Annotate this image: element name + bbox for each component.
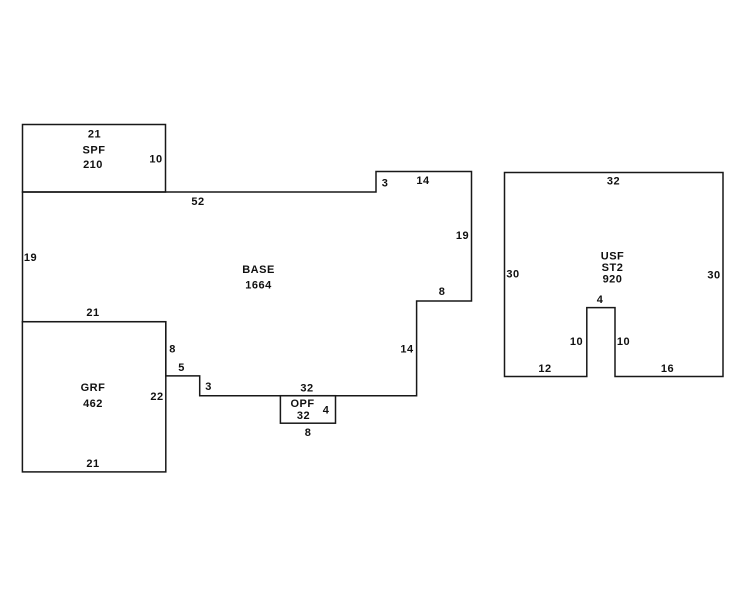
svg-text:14: 14 xyxy=(400,344,414,356)
svg-text:ST2: ST2 xyxy=(602,262,624,274)
svg-text:32: 32 xyxy=(300,383,313,395)
svg-text:32: 32 xyxy=(297,410,310,422)
svg-text:GRF: GRF xyxy=(81,382,106,394)
svg-text:SPF: SPF xyxy=(83,145,106,157)
svg-text:8: 8 xyxy=(439,286,446,298)
svg-text:21: 21 xyxy=(86,307,99,319)
svg-text:210: 210 xyxy=(83,159,103,171)
svg-text:4: 4 xyxy=(323,405,330,417)
area OPF outline xyxy=(280,396,335,424)
svg-text:BASE: BASE xyxy=(242,264,275,276)
svg-text:USF: USF xyxy=(601,251,625,263)
svg-text:8: 8 xyxy=(305,427,312,439)
svg-text:8: 8 xyxy=(169,344,176,356)
svg-text:16: 16 xyxy=(661,363,674,375)
svg-text:10: 10 xyxy=(570,336,583,348)
svg-text:4: 4 xyxy=(597,294,604,306)
svg-text:21: 21 xyxy=(86,458,99,470)
svg-text:3: 3 xyxy=(382,178,389,190)
area SPF outline xyxy=(23,125,166,193)
svg-text:462: 462 xyxy=(83,398,103,410)
svg-text:1664: 1664 xyxy=(245,280,272,292)
svg-text:30: 30 xyxy=(707,270,720,282)
svg-text:14: 14 xyxy=(416,175,430,187)
area BASE outline xyxy=(23,172,472,396)
svg-text:21: 21 xyxy=(88,129,101,141)
svg-text:52: 52 xyxy=(191,196,204,208)
svg-text:30: 30 xyxy=(506,269,519,281)
svg-text:19: 19 xyxy=(24,252,37,264)
svg-text:10: 10 xyxy=(149,154,162,166)
svg-text:12: 12 xyxy=(538,363,551,375)
svg-text:920: 920 xyxy=(603,274,623,286)
area USF outline xyxy=(505,173,724,377)
svg-text:10: 10 xyxy=(617,336,630,348)
svg-text:22: 22 xyxy=(150,391,163,403)
area GRF outline xyxy=(22,322,165,472)
svg-text:5: 5 xyxy=(178,362,185,374)
svg-text:32: 32 xyxy=(607,176,620,188)
svg-text:19: 19 xyxy=(456,230,469,242)
svg-text:3: 3 xyxy=(205,381,212,393)
svg-text:OPF: OPF xyxy=(290,398,314,410)
